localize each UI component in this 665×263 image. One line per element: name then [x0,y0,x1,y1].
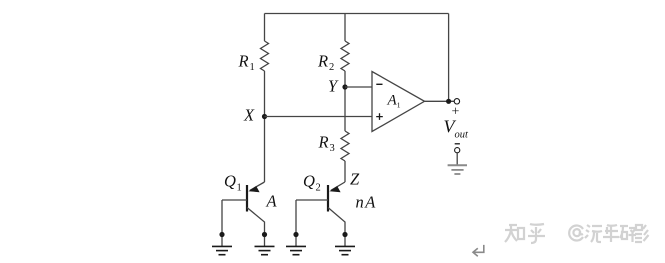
junction dot Q2 base ground [293,232,298,237]
wire: X to op-amp non-inverting input [265,116,373,118]
ground (under Q2 base) [286,246,306,254]
transistor Q1 base bar [246,185,248,212]
junction dot Q2 collector ground [342,232,347,237]
op-amp non-inverting input plus sign [376,113,383,120]
svg-text:nA: nA [356,193,377,212]
node Y junction dot [342,84,347,89]
svg-text:1: 1 [250,62,255,73]
svg-text:Z: Z [350,170,360,189]
wire: Q2 collector lead to ground [328,208,345,247]
resistor R1 [261,41,269,71]
wire: R1 top lead [264,14,266,42]
wire: Q1 base lead [222,199,247,201]
char 流 [585,225,602,242]
wire: R1 bottom lead down to node X and Q1 [264,71,266,182]
wire: Q2 base lead [296,199,328,201]
ground (output reference) [448,165,467,174]
ground (under Q2 collector) [335,246,355,254]
node X junction dot [262,114,267,119]
resistor R3 [341,131,349,161]
svg-text:R: R [238,52,249,71]
op-amp U1 triangle [372,72,425,132]
watermark: Zhihu logo text (知乎 @流年碎影) drawn as light strokes [505,224,649,243]
wire: feedback vertical (top rail to output node) [448,14,450,102]
svg-text:A: A [266,192,278,211]
svg-text:1: 1 [397,101,401,110]
label minus (output polarity) [455,143,460,145]
wire: R3 bottom lead to node Z and Q2 [344,161,346,182]
svg-text:2: 2 [316,183,321,194]
char 知 [505,225,518,242]
char 乎 [528,224,545,243]
ground terminal open circle under Vout [455,148,460,153]
ground (under Q1 collector) [255,246,275,254]
char 碎 [620,226,636,242]
output node junction dot [446,99,451,104]
svg-text:out: out [455,130,470,141]
svg-text:R: R [318,133,329,152]
wire: Q2 base to ground [295,200,297,246]
svg-text:X: X [243,106,255,125]
transistor Q2 emitter arrowhead [329,186,340,192]
resistor R2 [341,41,349,71]
return arrow glyph (page artifact) [473,245,484,256]
wire: Q2 emitter lead from R3 with arrow [331,182,345,190]
transistor Q2 base bar [327,185,329,212]
wire: Q1 collector lead to ground [247,208,265,247]
op-amp inverting input minus sign [376,83,382,85]
wire: Q1 base to ground [221,200,223,246]
wire: R2 bottom lead to node Y and on to R3 [344,71,346,131]
svg-text:Q: Q [224,172,236,191]
wire: op-amp output [425,100,455,102]
ground (under Q1 base) [212,246,232,254]
output terminal open circle [454,99,459,104]
wire: stem to output ground [456,153,458,165]
svg-text:Q: Q [303,172,315,191]
svg-text:3: 3 [330,143,335,154]
wire: R2 top lead [344,14,346,42]
transistor Q1 emitter arrowhead [248,186,259,192]
svg-text:2: 2 [329,62,334,73]
char @ [569,226,583,241]
svg-text:R: R [317,52,328,71]
wire: Y to op-amp inverting input [345,86,372,88]
wire: top supply rail [265,13,449,15]
char 影 [635,225,649,242]
junction dot Q1 collector ground [262,232,267,237]
svg-text:Y: Y [328,77,339,96]
junction dot Q1 base ground [219,232,224,237]
svg-text:1: 1 [237,183,242,194]
char 年 [603,225,619,242]
wire: Q1 emitter lead from X with arrow [250,182,265,190]
